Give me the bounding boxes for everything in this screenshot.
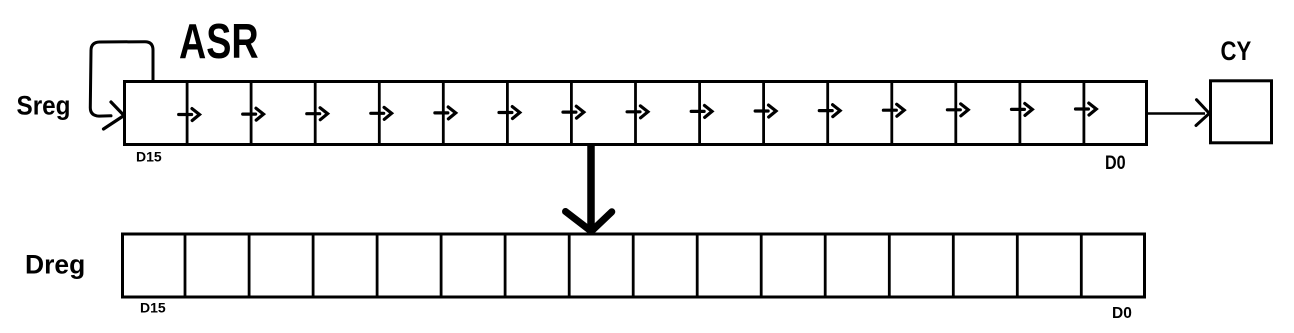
- box CY (carry flag): [1211, 81, 1272, 143]
- label Dreg: [25, 249, 85, 279]
- svg-text:D15: D15: [140, 300, 166, 316]
- Sreg cell dividers: [187, 82, 1084, 145]
- label D0 (Sreg): [1105, 152, 1126, 174]
- svg-text:ASR: ASR: [179, 14, 259, 69]
- transfer arrow Sreg to Dreg: [566, 145, 612, 231]
- label D15 (Dreg): [140, 300, 166, 316]
- label Sreg: [17, 91, 71, 120]
- label CY: [1221, 37, 1252, 67]
- svg-text:D0: D0: [1112, 305, 1132, 322]
- label D15 (Sreg): [136, 149, 162, 165]
- title ASR: [179, 14, 259, 69]
- label D0 (Dreg): [1112, 305, 1132, 322]
- MSB feedback loop wire: [90, 42, 153, 116]
- register Sreg box: [125, 82, 1147, 145]
- svg-text:Sreg: Sreg: [17, 91, 71, 120]
- svg-text:Dreg: Dreg: [25, 249, 85, 279]
- svg-text:D0: D0: [1105, 152, 1126, 174]
- shift arrows between Sreg cells: [179, 103, 1097, 120]
- wire Sreg to CY: [1148, 112, 1205, 115]
- Dreg cell dividers: [185, 234, 1081, 296]
- svg-text:CY: CY: [1221, 37, 1252, 67]
- arrowhead into CY: [1196, 100, 1209, 126]
- entry arrowhead into Sreg D15: [104, 102, 125, 129]
- svg-text:D15: D15: [136, 149, 162, 165]
- register Dreg box: [123, 234, 1145, 297]
